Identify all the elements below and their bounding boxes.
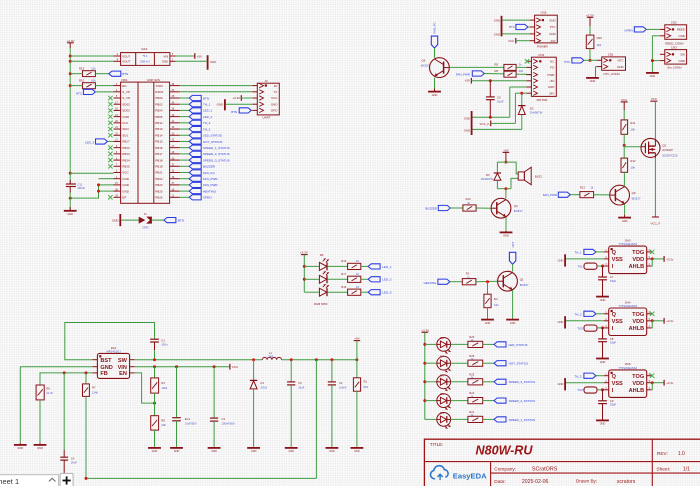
- wire DA2 GND: [176, 60, 207, 62]
- svg-text:R10: R10: [79, 79, 85, 83]
- connector CN5 POWER: [530, 10, 558, 48]
- svg-text:RXD0: RXD0: [155, 90, 163, 94]
- svg-text:100nF: 100nF: [77, 186, 85, 190]
- jumper J1 GPO: [139, 212, 152, 230]
- svg-text:GND: GND: [432, 94, 438, 97]
- svg-text:R13: R13: [580, 185, 585, 189]
- svg-text:PB23: PB23: [155, 183, 163, 187]
- wire rail to D4: [425, 418, 437, 420]
- svg-text:ESP-32S: ESP-32S: [148, 78, 160, 82]
- svg-text:GND: GND: [617, 65, 623, 69]
- svg-text:PB32: PB32: [122, 146, 130, 150]
- svg-text:BST: BST: [100, 358, 112, 364]
- power flag +5V at DA2: [194, 53, 196, 59]
- touch IC DA4 TTP223E-BA6: [604, 300, 652, 335]
- svg-text:D5: D5: [440, 392, 444, 396]
- svg-text:L1: L1: [269, 351, 272, 355]
- svg-text:GND: GND: [271, 102, 279, 106]
- EasyEDA logo: [430, 466, 448, 479]
- wire BTN to J2 GPO: [251, 109, 252, 111]
- svg-text:GND: GND: [18, 447, 24, 450]
- wire +3.3V LED rail: [424, 332, 426, 419]
- wire ESP PB25 to flag HEATING: [180, 190, 190, 192]
- svg-text:LED_1: LED_1: [382, 265, 392, 269]
- svg-text:10k: 10k: [630, 127, 635, 131]
- title block frame: [424, 439, 700, 487]
- svg-text:OPEN: OPEN: [203, 196, 212, 200]
- wire CN1 GND down: [595, 67, 597, 77]
- wire DA3 VDD to +3.3v: [652, 258, 664, 260]
- svg-text:D9: D9: [320, 253, 324, 257]
- svg-text:BUZZER: BUZZER: [425, 207, 437, 211]
- wire D5 to R22: [451, 400, 468, 402]
- resistor R21 1k: [468, 410, 483, 423]
- wire OPEN to CN2 REED: [646, 28, 660, 30]
- svg-text:GND: GND: [122, 177, 130, 181]
- svg-text:CN4: CN4: [538, 53, 544, 57]
- svg-text:R6: R6: [46, 386, 50, 390]
- svg-text:10k: 10k: [91, 79, 96, 83]
- resistor R10 10k: [79, 79, 96, 89]
- junction C5 GND: [489, 116, 492, 119]
- svg-text:PB33: PB33: [122, 152, 130, 156]
- resistor R20 10k: [586, 26, 602, 49]
- inductor L1 3R3: [262, 351, 281, 360]
- svg-text:PWR: PWR: [548, 73, 555, 77]
- svg-text:TH_2: TH_2: [203, 121, 211, 125]
- connector CN3 SW_CONN: [660, 45, 687, 69]
- svg-text:10k: 10k: [494, 303, 499, 307]
- junction gate node: [623, 144, 626, 147]
- svg-text:Q: Q: [612, 250, 617, 256]
- svg-text:124k: 124k: [92, 390, 98, 394]
- capacitor C7 33pF: [598, 266, 616, 296]
- svg-text:DA2: DA2: [142, 47, 148, 51]
- net flag FAN_FG vertical: [431, 22, 437, 48]
- LED D6: [437, 373, 451, 391]
- svg-text:D6: D6: [440, 373, 444, 377]
- svg-text:+5V: +5V: [465, 78, 470, 82]
- ground bar at CN5: [501, 16, 503, 37]
- net flag FAN_PWR at ESP PB22: [189, 176, 201, 181]
- diode D2 1N4007W: [518, 93, 542, 129]
- svg-text:PB26: PB26: [155, 196, 163, 200]
- resistor R5 1k: [495, 63, 523, 71]
- svg-text:TH_2: TH_2: [574, 312, 581, 316]
- svg-text:PB05: PB05: [155, 115, 163, 119]
- ground bar at DA5 VSS: [564, 378, 566, 390]
- LED D9 element 3: [319, 288, 326, 296]
- wire TX1 to DA3 I: [597, 265, 604, 267]
- svg-text:GND: GND: [122, 189, 130, 193]
- svg-text:VDD: VDD: [632, 319, 644, 325]
- wire to Q4 collector: [505, 189, 507, 199]
- svg-text:33pF: 33pF: [610, 403, 617, 407]
- ground at D1: [247, 447, 260, 449]
- svg-text:PB14: PB14: [155, 133, 163, 137]
- wire R12 to Q9 collector: [623, 172, 625, 186]
- svg-text:TH_1: TH_1: [574, 251, 581, 255]
- svg-text:GND: GND: [288, 450, 294, 453]
- capacitor C2 100nF: [328, 360, 347, 447]
- svg-text:PB04: PB04: [155, 109, 163, 113]
- svg-text:GND: GND: [549, 32, 555, 36]
- svg-text:BUZZER: BUZZER: [203, 165, 216, 169]
- svg-text:PB00: PB00: [155, 96, 163, 100]
- svg-text:+3.3v: +3.3v: [666, 319, 674, 323]
- power flag VCC_F at Q2 drain: [652, 216, 659, 218]
- svg-text:SPEED_1_STATUS: SPEED_1_STATUS: [509, 418, 536, 422]
- wire ESP PB00 to flag BTN: [180, 97, 190, 99]
- svg-text:*5.1: *5.1: [143, 54, 148, 58]
- wire R22 to SPEED_2_STATUS: [483, 400, 494, 402]
- svg-text:TTP223E-BA6: TTP223E-BA6: [618, 304, 637, 308]
- svg-text:TH_1: TH_1: [203, 103, 211, 107]
- svg-text:POWER: POWER: [537, 45, 548, 49]
- resistor R11 10k: [621, 110, 636, 134]
- ground at DA1 GND: [19, 443, 21, 445]
- wire TH_1 to DA3: [596, 251, 604, 253]
- svg-text:SPEED_1_STATUS: SPEED_1_STATUS: [203, 146, 230, 150]
- wire CN5 GND 3: [502, 33, 529, 35]
- svg-text:GND: GND: [37, 447, 43, 450]
- svg-text:GND: GND: [558, 320, 564, 324]
- wire FAN_FG to Q5 collector: [434, 48, 436, 58]
- svg-text:EP: EP: [122, 196, 126, 200]
- svg-text:TITLE:: TITLE:: [430, 442, 444, 447]
- ground at C2: [326, 447, 339, 449]
- junction bottom rail: [85, 477, 88, 480]
- power flag +3.3v at DA4: [663, 318, 665, 324]
- svg-text:GND: GND: [558, 258, 564, 262]
- svg-text:R20: R20: [597, 36, 603, 40]
- net flag SPEED_1_STATUS: [494, 417, 506, 422]
- svg-text:GND: GND: [558, 382, 564, 386]
- svg-text:SD1: SD1: [122, 133, 128, 137]
- wire +5V flag to rail: [356, 341, 358, 360]
- svg-text:VSS: VSS: [612, 257, 623, 263]
- svg-text:GND: GND: [100, 365, 112, 371]
- connector CN1 NTC_CONN: [597, 52, 626, 76]
- wire PTC: [528, 26, 530, 28]
- wire J1 to BTN: [152, 219, 164, 221]
- svg-text:R1: R1: [364, 380, 368, 384]
- junction DA5 I pin: [601, 388, 604, 391]
- svg-text:Q9: Q9: [632, 191, 636, 195]
- svg-text:Q: Q: [612, 312, 617, 318]
- svg-text:100nF/50V: 100nF/50V: [222, 422, 235, 426]
- svg-text:PB18: PB18: [155, 158, 163, 162]
- wire CN3 GND: [652, 60, 659, 62]
- wire R16 to LED_1: [361, 265, 368, 267]
- svg-text:+3.3V: +3.3V: [232, 96, 240, 100]
- svg-text:GND: GND: [600, 299, 606, 302]
- junction VCC node: [153, 365, 216, 368]
- svg-text:10k: 10k: [91, 67, 96, 71]
- wire ESP PB04 to flag LED_1: [180, 109, 190, 111]
- svg-text:+3.3V: +3.3V: [300, 251, 308, 255]
- svg-text:Q5: Q5: [422, 59, 426, 63]
- svg-text:1: 1: [15, 477, 19, 486]
- svg-text:BTN: BTN: [122, 72, 128, 76]
- svg-text:GND: GND: [678, 59, 684, 63]
- svg-text:GND: GND: [464, 128, 470, 132]
- svg-text:33pF: 33pF: [610, 279, 617, 283]
- wire GND to J2: [226, 103, 253, 105]
- net flag BTN at J1: [164, 218, 176, 223]
- wire CN2/CN3 GND down: [651, 36, 653, 72]
- resistor R8b 20k: [151, 403, 167, 447]
- svg-text:C6: C6: [298, 381, 302, 385]
- ground at CN1: [595, 76, 597, 79]
- svg-text:CN5: CN5: [541, 10, 547, 14]
- capacitor C8 33pF: [598, 328, 616, 358]
- junction RGB rail: [303, 265, 306, 281]
- wire rail to D9.1: [304, 265, 319, 267]
- svg-text:SPEED_2_STATUS: SPEED_2_STATUS: [203, 152, 230, 156]
- wire DA5 VDD to +3.3v: [652, 382, 664, 384]
- ground at R8b: [148, 447, 161, 449]
- wire ESP PB13 to flag TH_3: [180, 128, 190, 130]
- svg-text:FAN_PWR: FAN_PWR: [203, 183, 218, 187]
- svg-text:SCratORS: SCratORS: [532, 467, 558, 473]
- svg-text:Q: Q: [612, 374, 617, 380]
- wire EN to divider: [135, 373, 155, 403]
- svg-text:FB: FB: [100, 371, 107, 377]
- svg-text:PB19: PB19: [155, 164, 163, 168]
- svg-text:SPEED_3_STATUS: SPEED_3_STATUS: [203, 158, 230, 162]
- wire GND row upper: [473, 116, 510, 118]
- svg-text:VOUT: VOUT: [122, 60, 130, 64]
- wire +3.3V RGB rail: [303, 255, 305, 293]
- svg-text:RGB 5050: RGB 5050: [314, 302, 328, 306]
- svg-text:24V: 24V: [550, 39, 555, 43]
- net flag LED_1 at RGB: [368, 264, 380, 269]
- ground at EC1: [170, 447, 183, 449]
- svg-text:D8: D8: [440, 336, 444, 340]
- svg-text:D1: D1: [261, 381, 265, 385]
- svg-text:VDD: VDD: [632, 257, 644, 263]
- net flag BTN at ESP PB00: [189, 95, 201, 100]
- wire Q5 base to R5: [449, 66, 504, 68]
- wire D9 to R16: [328, 265, 348, 267]
- svg-text:10uF: 10uF: [298, 386, 304, 390]
- svg-text:TOG: TOG: [632, 250, 644, 256]
- svg-text:AHLB: AHLB: [629, 388, 645, 394]
- junction DA5 VDD: [651, 381, 654, 384]
- net flag SPEED_3_STATUS at ESP PB18: [189, 157, 201, 162]
- svg-text:GND: GND: [217, 103, 225, 107]
- svg-text:CN3: CN3: [671, 45, 677, 49]
- wire R21 to SPEED_1_STATUS: [483, 418, 494, 420]
- ground at Q1: [506, 319, 519, 321]
- wire FAN_PWR to R8: [484, 73, 504, 75]
- wire CN4 GND: [510, 86, 527, 88]
- svg-text:SW: SW: [680, 53, 685, 57]
- connector CN2 REED_CONN: [660, 20, 687, 45]
- svg-text:D7: D7: [440, 355, 444, 359]
- svg-text:VSS: VSS: [612, 381, 623, 387]
- resistor R12 10k: [621, 145, 636, 172]
- svg-text:SW: SW: [118, 358, 128, 364]
- wire R10 to ESP EN: [95, 85, 113, 87]
- svg-text:REV:: REV:: [657, 451, 668, 457]
- transistor Q9 BC817: [610, 185, 641, 205]
- svg-text:DD1: DD1: [122, 78, 128, 82]
- svg-text:1N4007W: 1N4007W: [481, 177, 494, 181]
- svg-text:10k: 10k: [630, 166, 635, 170]
- ground at Q5: [434, 89, 436, 92]
- wire D9 to R18: [328, 291, 348, 293]
- wire CN4 GND down: [509, 87, 511, 117]
- svg-text:TX3: TX3: [577, 388, 583, 392]
- junction +3.3V rail: [69, 55, 72, 175]
- svg-text:PB13: PB13: [155, 127, 163, 131]
- svg-text:SDO: SDO: [122, 127, 129, 131]
- capacitor EC1 10uF/50V: [172, 367, 197, 447]
- wire SW node: [135, 359, 263, 361]
- net flag LED_STATUS: [494, 342, 506, 347]
- svg-text:GND: GND: [112, 219, 118, 223]
- svg-text:GND: GND: [650, 75, 656, 78]
- wire GND to DA3 VSS: [566, 258, 604, 260]
- svg-text:D4: D4: [440, 411, 444, 415]
- wire GND row lower: [473, 128, 522, 130]
- wire ESP PB23 to flag FAN_PWR: [180, 184, 190, 186]
- svg-text:NC: NC: [550, 60, 554, 64]
- svg-text:PB21: PB21: [155, 171, 163, 175]
- svg-text:AHLB: AHLB: [629, 264, 645, 270]
- resistor R1b 1k: [462, 272, 476, 285]
- svg-text:N80W-RU: N80W-RU: [476, 444, 534, 458]
- svg-text:HOT_STATUS: HOT_STATUS: [509, 362, 528, 366]
- wire D6 to R23: [451, 381, 468, 383]
- wire +3.3V to J2 VCC: [241, 97, 252, 99]
- svg-text:GND: GND: [152, 450, 158, 453]
- svg-text:+3.3V: +3.3V: [421, 328, 429, 332]
- svg-text:VCC: VCC: [651, 97, 658, 101]
- junction NTC node: [589, 59, 592, 62]
- capacitor C5 10uF: [486, 81, 504, 118]
- svg-text:UART: UART: [263, 116, 271, 120]
- svg-text:PB22: PB22: [155, 177, 163, 181]
- svg-text:PTC: PTC: [550, 25, 556, 29]
- wire ESP PB17 to flag SPEED_2_STATUS: [180, 153, 190, 155]
- transistor Q4 BC817: [491, 198, 523, 218]
- wire buzzer bottom: [511, 178, 518, 188]
- svg-text:NTC: NTC: [618, 59, 624, 63]
- wire Q4 emitter to GND: [505, 217, 507, 231]
- svg-text:1/1: 1/1: [683, 467, 690, 473]
- LED D9 element 2: [319, 275, 326, 283]
- svg-text:BC817: BC817: [514, 209, 523, 213]
- svg-text:EasyEDA: EasyEDA: [453, 471, 487, 480]
- junction DA3 VDD: [651, 257, 654, 260]
- wire rail to D9.2: [304, 278, 319, 280]
- LED D5: [437, 392, 451, 410]
- junction buzzer top: [504, 161, 507, 164]
- svg-text:R4: R4: [494, 297, 498, 301]
- wire bottom ground rail: [86, 477, 316, 479]
- svg-text:FAN_PWR: FAN_PWR: [456, 73, 470, 77]
- svg-text:GPO: GPO: [142, 226, 149, 230]
- wire ESP VCC to rail: [70, 172, 113, 174]
- wire D7 to R25: [451, 362, 468, 364]
- svg-text:100k: 100k: [161, 386, 167, 390]
- svg-text:Q1: Q1: [520, 278, 524, 282]
- wire ESP PB18 to flag SPEED_3_STATUS: [180, 159, 190, 161]
- wire R15 to BTN: [95, 73, 108, 75]
- resistor R17 10: [341, 272, 361, 283]
- svg-text:GND: GND: [600, 361, 606, 364]
- ground at C3: [208, 447, 221, 449]
- wire rail to D5: [425, 400, 437, 402]
- svg-text:GND: GND: [503, 235, 509, 238]
- svg-text:3R3: 3R3: [268, 355, 273, 359]
- wire HEATING to R1: [450, 281, 462, 283]
- resistor R15 10k: [79, 67, 96, 77]
- svg-text:BC817: BC817: [632, 196, 641, 200]
- svg-text:TOG: TOG: [632, 374, 644, 380]
- svg-text:AO3407: AO3407: [662, 148, 673, 152]
- svg-text:VDD: VDD: [632, 381, 644, 387]
- wire R8 to CN4 PWR: [516, 73, 531, 75]
- svg-text:BTN: BTN: [231, 110, 237, 114]
- junction SW node: [153, 358, 255, 361]
- svg-text:Sheet:: Sheet:: [656, 467, 670, 473]
- svg-text:LED_STATUS: LED_STATUS: [509, 343, 528, 347]
- svg-text:SD02: SD02: [122, 102, 130, 106]
- wire ESP GND pin 38: [99, 190, 114, 192]
- wire GND to DA4 VSS: [566, 320, 604, 322]
- svg-text:S_VN: S_VN: [122, 96, 130, 100]
- svg-text:21.7k: 21.7k: [46, 391, 53, 395]
- wire rail to D8: [425, 343, 437, 345]
- wire +5V node after L1: [282, 359, 357, 361]
- svg-text:+3.3V: +3.3V: [66, 39, 75, 43]
- ground at C7: [596, 296, 609, 298]
- wire TX2 to DA4 I: [597, 327, 604, 329]
- wire R1 to Q1 base: [476, 280, 498, 282]
- wire VCC node: [135, 366, 230, 368]
- svg-text:LED_1: LED_1: [203, 109, 213, 113]
- svg-text:SS16: SS16: [261, 386, 268, 390]
- svg-text:R12: R12: [630, 159, 636, 163]
- svg-text:NTC: NTC: [76, 91, 83, 95]
- svg-text:R11: R11: [630, 121, 635, 125]
- resistor R4 10k: [484, 282, 499, 308]
- transistor Q5 BC817: [421, 58, 449, 78]
- wire R23 to SPEED_3_STATUS: [483, 381, 494, 383]
- wire buzzer top rail: [497, 162, 518, 174]
- svg-text:LED_3: LED_3: [85, 141, 95, 145]
- svg-text:R17: R17: [341, 272, 346, 276]
- svg-text:GND: GND: [549, 18, 555, 22]
- net flag TH_3 at ESP PB13: [189, 126, 201, 131]
- port TX2 at DA4 I: [584, 325, 597, 331]
- junction FB row: [63, 371, 88, 374]
- junction divider mid: [153, 402, 156, 405]
- svg-text:R5: R5: [495, 63, 499, 67]
- ground at R4: [481, 319, 494, 321]
- ground at Q9: [624, 215, 626, 218]
- svg-text:VOUT: VOUT: [122, 54, 130, 58]
- ground at R6: [39, 443, 41, 445]
- buzzer BUZ1: [518, 167, 542, 185]
- svg-text:VSS: VSS: [612, 319, 623, 325]
- resistor R18 10: [341, 285, 361, 296]
- wire RXD0 to J2: [180, 91, 253, 93]
